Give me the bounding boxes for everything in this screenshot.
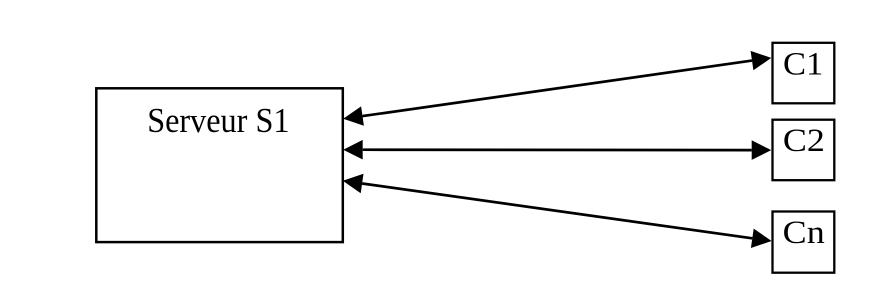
svg-text:C1: C1 xyxy=(783,46,823,82)
server box Serveur S1 xyxy=(96,88,342,242)
wire double-arrow server to C2 xyxy=(343,140,771,160)
label C2 xyxy=(783,123,825,159)
svg-text:Cn: Cn xyxy=(783,215,825,251)
wire double-arrow server to C1 xyxy=(343,51,771,126)
svg-text:C2: C2 xyxy=(783,123,825,159)
label Serveur S1 xyxy=(147,102,289,140)
wire double-arrow server to Cn xyxy=(343,174,772,248)
svg-text:Serveur S1: Serveur S1 xyxy=(147,102,289,140)
label C1 xyxy=(783,46,823,82)
client box C2 xyxy=(773,120,835,181)
client box C1 xyxy=(773,43,835,104)
client box Cn xyxy=(773,212,835,273)
label Cn xyxy=(783,215,825,251)
